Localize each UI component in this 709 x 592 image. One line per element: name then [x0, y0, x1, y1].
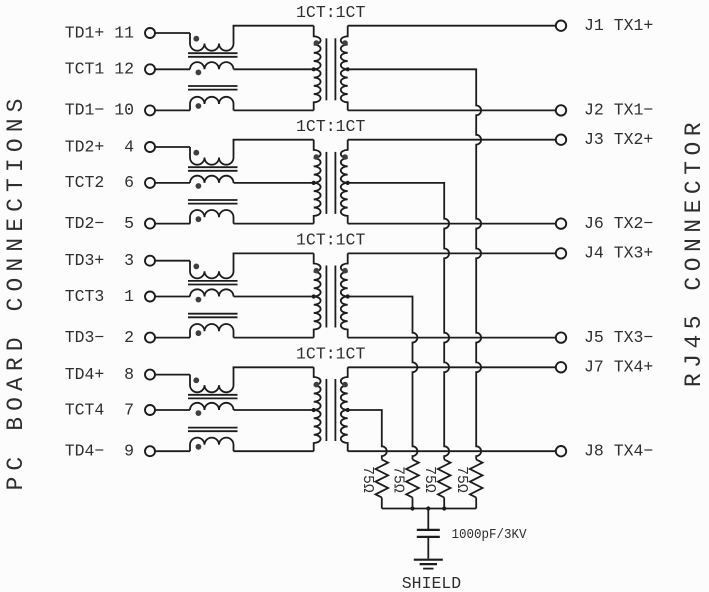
wire T3 secondary bottom to J terminal [348, 337, 556, 339]
svg-text:TD1+ 11: TD1+ 11 [65, 23, 134, 42]
wire T2 secondary top to J terminal [348, 139, 556, 141]
svg-text:1CT:1CT: 1CT:1CT [296, 3, 365, 22]
transformer T3 secondary winding [341, 253, 350, 337]
choke core (top pair) [188, 167, 238, 171]
svg-text:75Ω: 75Ω [390, 466, 406, 493]
svg-text:J3 TX2+: J3 TX2+ [584, 130, 653, 149]
wire TD2- terminal to choke [155, 223, 190, 225]
label T4 ratio 1CT:1CT [296, 345, 365, 364]
svg-text:1000pF/3KV: 1000pF/3KV [452, 527, 528, 543]
node TCT2 pin 6 terminal [65, 173, 155, 192]
choke winding top (TD3+) [190, 253, 234, 278]
wire TCT4 terminal to choke [155, 409, 190, 411]
node TCT4 pin 7 terminal [65, 400, 155, 419]
wire TD2+ terminal to choke [155, 146, 190, 148]
svg-text:TD4+ 8: TD4+ 8 [65, 365, 134, 384]
svg-text:TD3− 2: TD3− 2 [65, 328, 134, 347]
wire T4 secondary center tap to resistor (with crossovers) [348, 410, 387, 460]
wire TCT2 terminal to choke [155, 182, 190, 184]
svg-text:J7 TX4+: J7 TX4+ [584, 358, 653, 377]
choke core (top pair) [188, 53, 238, 57]
svg-text:75Ω: 75Ω [453, 466, 469, 493]
choke core (top pair) [188, 395, 238, 399]
node TD4− pin 9 terminal [65, 442, 155, 461]
svg-text:TD3+ 3: TD3+ 3 [65, 251, 134, 270]
wire TD3- terminal to choke [155, 337, 190, 339]
wire T1 secondary top to J terminal [348, 25, 556, 27]
node J3 TX2+ terminal [556, 130, 654, 149]
wire TD1+ terminal to choke [155, 32, 190, 34]
svg-text:1CT:1CT: 1CT:1CT [296, 345, 365, 364]
wire choke to transformer T3 center tap [234, 296, 314, 298]
wire T2 secondary center tap to resistor (with crossovers) [348, 183, 449, 460]
wire choke to transformer T4 bottom rail [234, 450, 314, 452]
node J6 TX2− terminal [556, 214, 654, 233]
choke winding bottom (TD2-) [190, 210, 234, 224]
node J5 TX3− terminal [556, 328, 654, 347]
wire TCT3 terminal to choke [155, 296, 190, 298]
svg-text:TCT2 6: TCT2 6 [65, 173, 134, 192]
node TD2− pin 5 terminal [65, 214, 155, 233]
transformer T1 secondary winding [341, 26, 350, 111]
wire choke to transformer T1 top rail [233, 25, 314, 27]
wire choke to transformer T2 center tap [234, 182, 314, 184]
transformer T3 core [326, 266, 335, 328]
wire TD4- terminal to choke [155, 450, 190, 452]
label T1 ratio 1CT:1CT [296, 3, 365, 22]
svg-text:J8 TX4−: J8 TX4− [584, 442, 653, 461]
resistor R2 75ohm [390, 460, 419, 509]
wire T1 secondary bottom to J terminal [348, 109, 556, 111]
node J8 TX4− terminal [556, 442, 654, 461]
svg-text:RJ45 CONNECTOR: RJ45 CONNECTOR [681, 117, 707, 387]
svg-text:TCT4 7: TCT4 7 [65, 400, 134, 419]
node J7 TX4+ terminal [556, 358, 654, 377]
label RJ45 CONNECTOR [681, 117, 707, 387]
svg-text:J4 TX3+: J4 TX3+ [584, 244, 653, 263]
wire TD3+ terminal to choke [155, 260, 190, 262]
node TD4+ pin 8 terminal [65, 365, 155, 384]
wire T4 secondary bottom to J terminal [348, 450, 556, 452]
svg-text:1CT:1CT: 1CT:1CT [296, 117, 365, 136]
label SHIELD [402, 574, 462, 592]
svg-text:TD2− 5: TD2− 5 [65, 214, 134, 233]
svg-text:J6 TX2−: J6 TX2− [584, 214, 653, 233]
choke core (bottom pair) [188, 200, 238, 204]
label PC BOARD CONNECTIONS [3, 92, 29, 490]
wire resistor common rail [382, 508, 476, 510]
resistor R1 75ohm [359, 460, 388, 509]
label T2 ratio 1CT:1CT [296, 117, 365, 136]
node TD1+ pin 11 terminal [65, 23, 155, 42]
svg-text:J2 TX1−: J2 TX1− [584, 101, 653, 120]
node rail junction dots [410, 506, 446, 510]
transformer T2 core [326, 152, 335, 214]
choke winding middle (TCT2) [190, 176, 234, 189]
resistor R4 75ohm [453, 460, 482, 509]
wire choke to transformer T2 top rail [233, 139, 314, 141]
wire TCT1 terminal to choke [155, 68, 190, 70]
wire T3 secondary top to J terminal [348, 252, 556, 254]
wire choke to transformer T4 top rail [233, 366, 314, 368]
transformer T4 core [326, 379, 335, 441]
node J1 TX1+ terminal [556, 16, 654, 35]
svg-text:J5 TX3−: J5 TX3− [584, 328, 653, 347]
choke winding top (TD2+) [190, 140, 234, 165]
svg-text:75Ω: 75Ω [359, 466, 375, 493]
wire TD4+ terminal to choke [155, 374, 190, 376]
wire choke to transformer T4 center tap [234, 409, 314, 411]
label T3 ratio 1CT:1CT [296, 231, 365, 250]
choke core (bottom pair) [188, 86, 238, 90]
choke core (bottom pair) [188, 428, 238, 432]
wire T3 secondary center tap to resistor (with crossovers) [348, 297, 418, 460]
ground shield symbol [414, 560, 443, 569]
node TD2+ pin 4 terminal [65, 137, 155, 156]
choke winding bottom (TD1-) [190, 97, 234, 111]
node TCT3 pin 1 terminal [65, 287, 155, 306]
node TD3+ pin 3 terminal [65, 251, 155, 270]
choke winding middle (TCT1) [190, 62, 234, 75]
wire T1 secondary center tap to resistor (with crossovers) [348, 69, 481, 459]
choke core (top pair) [188, 281, 238, 285]
choke winding top (TD4+) [190, 367, 234, 392]
choke core (bottom pair) [188, 314, 238, 318]
wire choke to transformer T2 bottom rail [234, 223, 314, 225]
svg-text:TCT1 12: TCT1 12 [65, 60, 134, 79]
resistor R3 75ohm [421, 460, 450, 509]
wire choke to transformer T1 bottom rail [234, 109, 314, 111]
choke winding middle (TCT4) [190, 403, 234, 416]
capacitor C1 1000pF/3KV [417, 509, 440, 559]
transformer T4 primary winding [312, 367, 321, 451]
svg-text:SHIELD: SHIELD [402, 574, 462, 592]
svg-text:PC BOARD CONNECTIONS: PC BOARD CONNECTIONS [3, 92, 29, 490]
choke winding middle (TCT3) [190, 289, 234, 302]
wire choke to transformer T3 top rail [233, 252, 314, 254]
wire choke to transformer T1 center tap [234, 68, 314, 70]
node J4 TX3+ terminal [556, 244, 654, 263]
choke winding top (TD1+) [190, 26, 234, 51]
svg-text:TD4− 9: TD4− 9 [65, 442, 134, 461]
svg-text:TD2+ 4: TD2+ 4 [65, 137, 134, 156]
node J2 TX1− terminal [556, 101, 654, 120]
wire TD1- terminal to choke [155, 109, 190, 111]
label capacitor value 1000pF/3KV [452, 527, 528, 543]
svg-text:J1 TX1+: J1 TX1+ [584, 16, 653, 35]
node TCT1 pin 12 terminal [65, 60, 155, 79]
transformer T1 core [326, 38, 335, 100]
transformer T4 secondary winding [341, 367, 350, 451]
choke winding bottom (TD3-) [190, 324, 234, 338]
wire T2 secondary bottom to J terminal [348, 223, 556, 225]
transformer T1 primary winding [312, 26, 321, 111]
svg-text:TCT3 1: TCT3 1 [65, 287, 134, 306]
svg-text:TD1− 10: TD1− 10 [65, 101, 134, 120]
node TD1− pin 10 terminal [65, 101, 155, 120]
transformer T2 primary winding [312, 140, 321, 224]
choke winding bottom (TD4-) [190, 438, 234, 452]
node TD3− pin 2 terminal [65, 328, 155, 347]
svg-text:75Ω: 75Ω [421, 466, 437, 493]
transformer T2 secondary winding [341, 140, 350, 224]
wire choke to transformer T3 bottom rail [234, 337, 314, 339]
svg-text:1CT:1CT: 1CT:1CT [296, 231, 365, 250]
wire T4 secondary top to J terminal [348, 366, 556, 368]
transformer T3 primary winding [312, 253, 321, 337]
